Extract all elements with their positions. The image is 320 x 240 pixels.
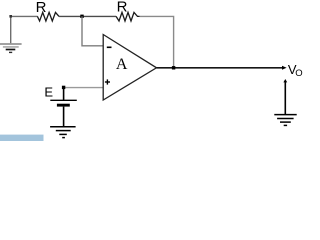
- op-amp minus input label: [107, 46, 112, 48]
- wire: J1 down and right into inverting input: [82, 16, 103, 45]
- wire: top-left vertical to ground: [10, 16, 12, 43]
- resistor R1: [37, 12, 59, 21]
- wire: output from op-amp apex to arrow: [157, 67, 284, 69]
- wire: R1 to R2 through node: [59, 15, 116, 17]
- node E dot: [62, 86, 65, 89]
- node J1 dot: [80, 15, 83, 18]
- battery E negative plate (thick): [57, 104, 70, 107]
- svg-text:R: R: [36, 0, 47, 16]
- arrowhead at output end: [282, 66, 287, 70]
- selection highlight bar (bottom-left): [0, 135, 44, 141]
- wire: top-left horizontal input: [11, 15, 38, 17]
- svg-text:E: E: [44, 85, 53, 100]
- svg-text:A: A: [116, 56, 128, 73]
- wire: E node to non-inverting input: [64, 87, 103, 89]
- svg-text:R: R: [117, 0, 128, 16]
- op-amp plus input label: [105, 79, 110, 84]
- ground G3 (output, bottom-right): [274, 115, 296, 126]
- svg-text:O: O: [295, 68, 302, 79]
- wire: output ground stub: [284, 82, 286, 115]
- ground G1 (top-left): [0, 44, 22, 52]
- wire: R2 to feedback corner and down to output: [140, 16, 174, 67]
- wire: E node down to battery: [63, 88, 65, 101]
- node J2 dot on output: [172, 66, 175, 69]
- ground G2 (below battery E): [50, 127, 76, 138]
- resistor R2: [116, 12, 139, 21]
- wire: battery to ground: [63, 107, 65, 127]
- op-amp U1 triangle: [103, 35, 156, 101]
- battery E positive plate: [50, 99, 77, 101]
- node corner dot: [9, 15, 12, 18]
- arrowhead up on output ground stub: [283, 79, 287, 82]
